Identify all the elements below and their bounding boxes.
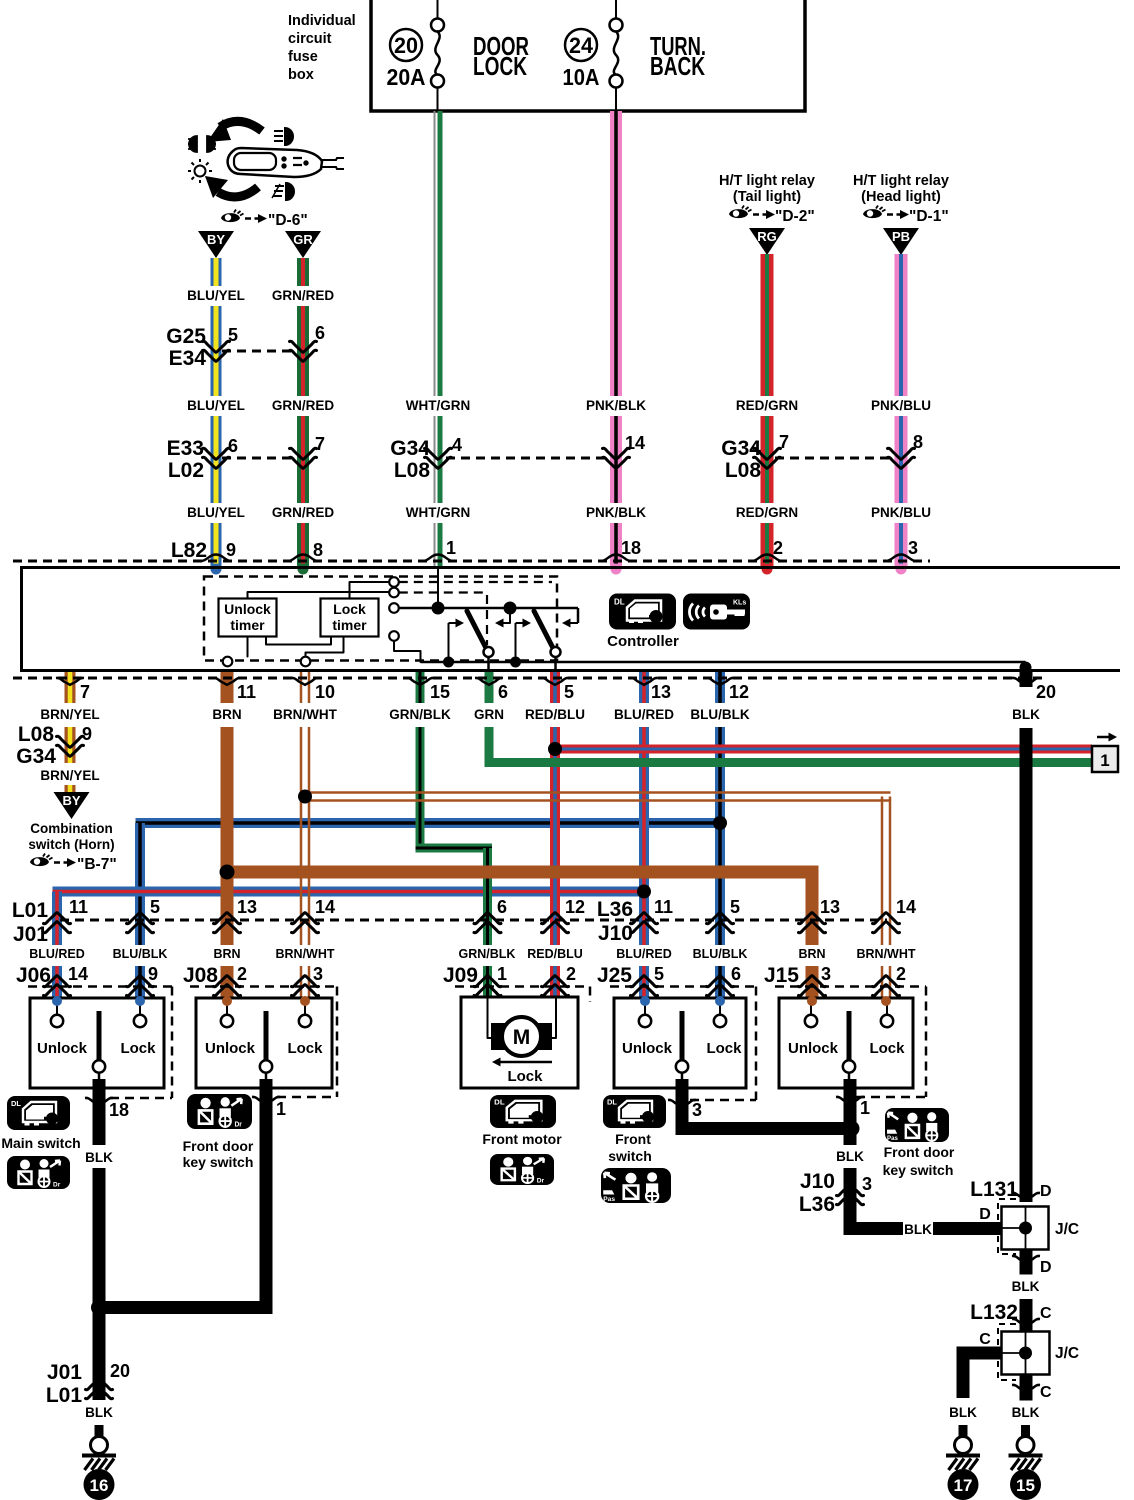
dashed control lines [399, 581, 552, 583]
svg-text:9: 9 [148, 964, 158, 984]
wire BLU/BLK [136, 818, 721, 828]
svg-text:BLK: BLK [1012, 1405, 1040, 1420]
svg-text:D: D [1040, 1183, 1052, 1200]
svg-text:switch (Horn): switch (Horn) [28, 837, 114, 852]
switch J25 front switch [614, 998, 746, 1088]
motor J09 front motor [461, 997, 578, 1088]
svg-text:6: 6 [498, 682, 508, 702]
svg-text:1: 1 [1100, 751, 1109, 770]
wire BLU/BLK left [135, 823, 145, 1002]
svg-text:DL: DL [614, 598, 625, 607]
svg-text:15: 15 [430, 682, 450, 702]
svg-text:BLK: BLK [1012, 1279, 1040, 1294]
svg-text:1: 1 [497, 964, 507, 984]
svg-text:Unlock: Unlock [622, 1040, 673, 1057]
wire GRN/RED [297, 258, 309, 569]
wire GRN [485, 758, 1093, 767]
wire GRN/BLK [416, 672, 425, 853]
svg-text:GRN/RED: GRN/RED [272, 288, 335, 303]
svg-text:Main switch: Main switch [1, 1135, 80, 1151]
svg-text:3: 3 [821, 964, 831, 984]
svg-text:6: 6 [228, 436, 238, 456]
svg-text:timer: timer [332, 617, 367, 633]
svg-text:BRN: BRN [798, 947, 825, 961]
svg-text:L36: L36 [799, 1193, 835, 1216]
svg-text:L36: L36 [597, 898, 633, 921]
svg-text:13: 13 [651, 682, 671, 702]
wire GRN/BLK [416, 844, 493, 853]
wire BRN right [806, 872, 819, 1003]
J15 wire to ground path [844, 1079, 857, 1145]
svg-text:DL: DL [11, 1099, 21, 1108]
controller box [22, 568, 1121, 671]
switch J08 front door key switch [196, 998, 332, 1088]
main switch icon door [7, 1096, 70, 1130]
front switch icon door (J25) [603, 1095, 666, 1128]
svg-text:3: 3 [908, 538, 918, 558]
svg-text:L01: L01 [12, 899, 49, 922]
ground 16 [82, 1437, 116, 1500]
svg-text:Individual: Individual [288, 13, 356, 29]
svg-text:(Tail light): (Tail light) [733, 189, 801, 205]
svg-text:Lock: Lock [287, 1040, 323, 1057]
svg-text:14: 14 [315, 897, 335, 917]
controller terminal circles [389, 577, 399, 587]
front motor icon door (J09) [490, 1095, 556, 1128]
svg-text:BLU/YEL: BLU/YEL [187, 288, 245, 303]
svg-text:Lock: Lock [507, 1068, 543, 1085]
svg-text:J10: J10 [598, 922, 633, 945]
svg-text:3: 3 [862, 1174, 872, 1194]
svg-text:1: 1 [276, 1099, 286, 1119]
switch 1 actuator arrows [448, 623, 450, 662]
svg-text:5: 5 [228, 325, 238, 345]
wire WHT/GRN [434, 111, 436, 396]
connector triangle RG [749, 228, 785, 255]
svg-text:PNK/BLK: PNK/BLK [586, 398, 646, 413]
svg-text:1: 1 [446, 538, 456, 558]
wire BLK to J01/L01 and ground 16 [93, 1307, 106, 1400]
unlock timer box [219, 599, 277, 637]
svg-text:3: 3 [313, 964, 323, 984]
svg-text:Unlock: Unlock [224, 601, 271, 617]
wire BLK from J08 [260, 1079, 273, 1314]
svg-text:Lock: Lock [120, 1040, 156, 1057]
controller internal dashed box [204, 577, 557, 661]
svg-text:RG: RG [757, 229, 777, 244]
svg-text:6: 6 [731, 964, 741, 984]
svg-text:20: 20 [394, 33, 418, 58]
svg-text:Unlock: Unlock [205, 1040, 256, 1057]
svg-text:GRN: GRN [474, 707, 504, 722]
svg-text:C: C [1040, 1305, 1052, 1322]
J08 pin 1 [252, 1097, 280, 1104]
svg-text:LOCK: LOCK [473, 51, 527, 81]
svg-text:DL: DL [494, 1098, 505, 1107]
svg-text:8: 8 [913, 432, 923, 452]
svg-text:4: 4 [452, 435, 462, 455]
eye to D-6 [221, 210, 267, 224]
svg-text:J10: J10 [800, 1170, 835, 1193]
svg-text:18: 18 [621, 538, 641, 558]
svg-text:RED/GRN: RED/GRN [736, 505, 798, 520]
svg-text:J06: J06 [16, 964, 51, 987]
svg-text:key switch: key switch [183, 1154, 254, 1170]
svg-text:5: 5 [730, 897, 740, 917]
svg-text:L131: L131 [970, 1178, 1018, 1201]
fuse 20 circle [390, 29, 422, 61]
svg-text:J09: J09 [443, 964, 478, 987]
svg-text:Pas: Pas [603, 1196, 615, 1203]
svg-text:Dr: Dr [537, 1178, 545, 1185]
svg-text:D: D [1040, 1259, 1052, 1276]
svg-text:6: 6 [315, 323, 325, 343]
wire BRN [221, 672, 234, 1002]
svg-text:BLU/BLK: BLU/BLK [693, 947, 748, 961]
svg-text:timer: timer [230, 617, 265, 633]
svg-text:RED/BLU: RED/BLU [527, 947, 583, 961]
svg-text:9: 9 [82, 724, 92, 744]
svg-text:11: 11 [69, 897, 88, 917]
svg-text:BLU/YEL: BLU/YEL [187, 398, 245, 413]
svg-text:BLK: BLK [836, 1149, 864, 1164]
svg-text:Lock: Lock [333, 601, 366, 617]
svg-text:5: 5 [564, 682, 574, 702]
svg-text:BRN: BRN [212, 707, 241, 722]
svg-text:PNK/BLK: PNK/BLK [586, 505, 646, 520]
svg-text:16: 16 [90, 1476, 109, 1495]
svg-text:13: 13 [820, 897, 840, 917]
svg-text:5: 5 [654, 964, 664, 984]
svg-text:BLU/BLK: BLU/BLK [113, 947, 168, 961]
wire BLK pin 20 [1020, 672, 1033, 687]
svg-text:L08: L08 [18, 723, 55, 746]
main switch icon person [7, 1156, 70, 1189]
svg-text:M: M [513, 1026, 531, 1049]
svg-text:Unlock: Unlock [788, 1040, 839, 1057]
svg-text:7: 7 [80, 682, 90, 702]
svg-text:7: 7 [779, 432, 789, 452]
J25 pin 3 [668, 1100, 696, 1107]
wire BLU/RED [53, 887, 645, 897]
svg-text:11: 11 [654, 897, 673, 917]
svg-text:Controller: Controller [607, 633, 679, 650]
svg-text:PNK/BLU: PNK/BLU [871, 505, 931, 520]
wire BRN/WHT [302, 791, 891, 802]
wire RED/GRN [761, 254, 774, 569]
wire BRN/YEL [65, 672, 76, 763]
svg-text:14: 14 [896, 897, 916, 917]
svg-text:BLK: BLK [85, 1150, 113, 1165]
front door key switch icon (J08) [187, 1094, 252, 1129]
wire BRN [227, 866, 819, 879]
fuse 20A symbol [437, 0, 439, 18]
svg-text:L01: L01 [46, 1384, 83, 1407]
connector row L132 [1020, 1299, 1033, 1331]
svg-text:2: 2 [237, 964, 247, 984]
wire BLU/YEL [211, 258, 222, 569]
svg-text:BRN/WHT: BRN/WHT [856, 947, 915, 961]
svg-text:E34: E34 [169, 347, 207, 370]
svg-text:GRN/BLK: GRN/BLK [459, 947, 516, 961]
svg-text:PNK/BLU: PNK/BLU [871, 398, 931, 413]
svg-text:7: 7 [315, 434, 325, 454]
switch J06 main switch [30, 998, 164, 1088]
page connector 1 [1097, 736, 1111, 739]
wire BRN/WHT [300, 672, 311, 1002]
wire RED/BLU [551, 745, 1093, 754]
svg-text:J08: J08 [183, 964, 218, 987]
wire BLU/RED [639, 672, 649, 1003]
wire BLK to L131 [850, 1192, 903, 1229]
svg-text:DL: DL [607, 1098, 617, 1107]
svg-text:BRN/YEL: BRN/YEL [40, 707, 99, 722]
fuse 10A symbol [615, 0, 617, 18]
svg-text:H/T light relay: H/T light relay [719, 173, 815, 189]
wire BLU/BLK [715, 672, 725, 1003]
L132 junction connector J/C [998, 1324, 1016, 1380]
svg-text:14: 14 [68, 964, 88, 984]
relay switch 2 [534, 611, 553, 648]
svg-text:J15: J15 [764, 964, 799, 987]
svg-text:L08: L08 [394, 459, 431, 482]
wire GRN/BLK down [483, 848, 492, 1002]
svg-text:BLU/YEL: BLU/YEL [187, 505, 245, 520]
svg-text:10A: 10A [563, 64, 600, 90]
connector triangle BY (horn) [54, 792, 90, 819]
svg-text:WHT/GRN: WHT/GRN [406, 398, 471, 413]
svg-text:"D-2": "D-2" [775, 208, 815, 225]
wire WHT/GRN into controller [437, 567, 439, 603]
wire BLK from J06 [93, 1079, 106, 1145]
ground 17 [946, 1437, 980, 1500]
svg-text:BLK: BLK [904, 1222, 932, 1237]
svg-text:17: 17 [954, 1476, 973, 1495]
svg-text:G25: G25 [166, 325, 206, 348]
svg-text:BRN: BRN [213, 947, 240, 961]
svg-text:6: 6 [497, 897, 507, 917]
svg-text:D: D [979, 1206, 991, 1223]
svg-text:20: 20 [110, 1361, 130, 1381]
svg-text:fuse: fuse [288, 49, 318, 65]
svg-text:Unlock: Unlock [37, 1040, 88, 1057]
svg-text:BLU/BLK: BLU/BLK [690, 707, 749, 722]
svg-text:BY: BY [207, 232, 225, 247]
svg-text:key switch: key switch [883, 1162, 954, 1178]
svg-text:L02: L02 [168, 459, 204, 482]
svg-text:Dr: Dr [53, 1182, 61, 1189]
svg-text:BRN/WHT: BRN/WHT [273, 707, 337, 722]
svg-text:Combination: Combination [30, 821, 113, 836]
svg-text:18: 18 [109, 1100, 129, 1120]
controller icon: keyless transmitter [683, 594, 750, 630]
svg-text:BLK: BLK [1012, 707, 1040, 722]
svg-text:RED/GRN: RED/GRN [736, 398, 798, 413]
timer wiring [248, 592, 389, 599]
svg-text:11: 11 [237, 682, 256, 702]
svg-text:C: C [979, 1331, 991, 1348]
wire BLK joining J06-J08 [93, 1301, 273, 1314]
J-row dashed lines [28, 985, 172, 988]
svg-text:20: 20 [1036, 682, 1056, 702]
wire BLK to ground 17 [963, 1353, 1002, 1398]
connector dashed outlines [171, 987, 174, 1099]
svg-text:box: box [288, 67, 314, 83]
svg-text:Front: Front [615, 1131, 651, 1147]
svg-text:Front motor: Front motor [482, 1131, 562, 1147]
svg-text:24: 24 [569, 33, 594, 58]
svg-text:GRN/RED: GRN/RED [272, 398, 335, 413]
front switch icon person (J25) [601, 1168, 671, 1203]
svg-text:2: 2 [896, 964, 906, 984]
J15 pin 1 [836, 1097, 864, 1104]
svg-text:GRN/RED: GRN/RED [272, 505, 335, 520]
svg-text:BLK: BLK [85, 1405, 113, 1420]
svg-text:G34: G34 [16, 745, 56, 768]
svg-text:3: 3 [692, 1100, 702, 1120]
svg-text:L08: L08 [725, 459, 762, 482]
svg-text:J/C: J/C [1055, 1221, 1079, 1238]
wire GRN [485, 672, 494, 766]
connector triangle BY (top) [198, 231, 234, 258]
svg-text:"D-1": "D-1" [909, 208, 949, 225]
wire BRN/WHT right [881, 797, 892, 1004]
svg-text:L132: L132 [970, 1301, 1018, 1324]
relay switch 1 [467, 611, 486, 648]
wire RED/BLU [550, 672, 560, 1003]
svg-text:H/T light relay: H/T light relay [853, 173, 949, 189]
svg-text:20A: 20A [387, 64, 426, 90]
svg-text:RED/BLU: RED/BLU [525, 707, 585, 722]
front motor icon person (J09) [490, 1154, 554, 1185]
controller icon: door lock [609, 594, 676, 630]
svg-text:J01: J01 [13, 923, 48, 946]
svg-text:J25: J25 [597, 964, 632, 987]
J06 pin 18 [85, 1098, 113, 1105]
svg-text:14: 14 [625, 433, 645, 453]
connector triangle PB [883, 228, 919, 255]
svg-text:10: 10 [315, 682, 335, 702]
svg-text:C: C [1040, 1384, 1052, 1401]
svg-text:KLs: KLs [733, 600, 746, 607]
svg-text:"D-6": "D-6" [268, 212, 308, 229]
individual circuit fuse box [371, 0, 805, 111]
svg-text:Pas: Pas [887, 1135, 898, 1142]
svg-text:BRN/WHT: BRN/WHT [275, 947, 334, 961]
fuse 24 circle [565, 29, 597, 61]
svg-text:Front door: Front door [884, 1144, 955, 1160]
front door key switch icon (J15) [885, 1108, 949, 1142]
svg-text:BLU/RED: BLU/RED [614, 707, 674, 722]
svg-text:BLU/RED: BLU/RED [29, 947, 85, 961]
svg-text:Dr: Dr [234, 1121, 242, 1128]
svg-text:J/C: J/C [1055, 1345, 1079, 1362]
bottom common line [394, 641, 421, 662]
svg-text:(Head light): (Head light) [861, 189, 941, 205]
svg-text:BY: BY [62, 793, 80, 808]
wire BRN/YEL stub [65, 785, 76, 792]
connector triangle GR [285, 231, 321, 258]
svg-text:2: 2 [773, 538, 783, 558]
controller pin row [13, 677, 1043, 680]
svg-text:Lock: Lock [869, 1040, 905, 1057]
svg-text:BRN/YEL: BRN/YEL [40, 768, 99, 783]
svg-text:J01: J01 [47, 1361, 82, 1384]
svg-text:Lock: Lock [706, 1040, 742, 1057]
wire BLK from J25 [682, 1079, 852, 1129]
svg-text:WHT/GRN: WHT/GRN [406, 505, 471, 520]
J-row chevrons [44, 976, 71, 996]
svg-text:15: 15 [1016, 1476, 1035, 1495]
svg-text:1: 1 [860, 1098, 870, 1118]
controller internal bus [399, 607, 578, 610]
svg-text:13: 13 [237, 897, 257, 917]
svg-text:PB: PB [892, 229, 910, 244]
svg-text:12: 12 [729, 682, 749, 702]
svg-text:GR: GR [293, 232, 313, 247]
wire PNK/BLU [895, 254, 908, 569]
svg-text:switch: switch [608, 1148, 652, 1164]
svg-text:GRN/BLK: GRN/BLK [389, 707, 451, 722]
svg-text:BLK: BLK [949, 1405, 977, 1420]
svg-text:E33: E33 [167, 437, 204, 460]
ground 15 [1009, 1437, 1043, 1500]
lock timer box [321, 599, 379, 637]
svg-text:BLU/RED: BLU/RED [616, 947, 672, 961]
svg-text:BACK: BACK [650, 51, 705, 81]
svg-text:8: 8 [313, 540, 323, 560]
combination switch lever icon [188, 119, 344, 200]
switch J15 front door key switch [779, 998, 913, 1088]
svg-text:12: 12 [565, 897, 585, 917]
wire PNK/BLK [610, 111, 622, 569]
svg-text:2: 2 [566, 964, 576, 984]
switch 2 actuator arrows [515, 623, 517, 662]
svg-text:Front door: Front door [183, 1138, 254, 1154]
svg-text:5: 5 [150, 897, 160, 917]
svg-text:"B-7": "B-7" [77, 856, 117, 873]
svg-text:L82: L82 [171, 539, 207, 562]
L131 junction connector J/C [998, 1199, 1016, 1254]
svg-text:9: 9 [226, 540, 236, 560]
svg-text:circuit: circuit [288, 31, 332, 47]
wire BLU/RED left [52, 892, 62, 1003]
